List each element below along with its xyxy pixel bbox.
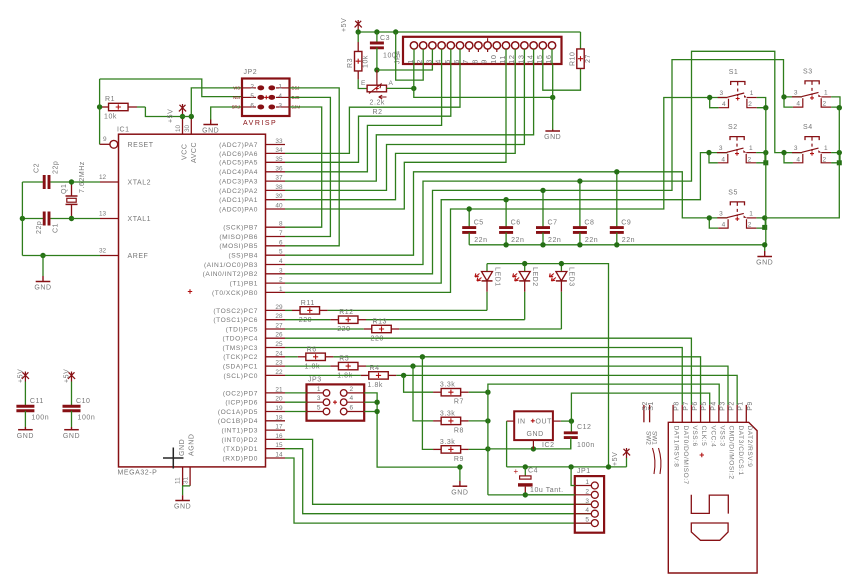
- wire RESET to JP2 pin5: [100, 79, 242, 97]
- svg-text:P9: P9: [747, 401, 754, 411]
- svg-text:220: 220: [371, 336, 384, 343]
- svg-text:+5V: +5V: [612, 452, 619, 466]
- svg-text:(AIN1/OC0)PB3: (AIN1/OC0)PB3: [204, 262, 258, 269]
- svg-text:1.8k: 1.8k: [337, 373, 352, 380]
- svg-text:4: 4: [350, 395, 354, 402]
- svg-text:R6: R6: [307, 346, 317, 353]
- svg-text:S4: S4: [803, 124, 813, 131]
- svg-text:C2: C2: [34, 163, 41, 173]
- svg-text:3: 3: [279, 267, 283, 274]
- svg-text:XTAL2: XTAL2: [128, 180, 152, 187]
- IC1 pin 22 (SCL)PC0: [224, 369, 285, 380]
- switch S4: [781, 124, 840, 163]
- junction R1 left: [97, 104, 102, 109]
- power +5V at VCC: [168, 104, 187, 123]
- capacitor C1: [22, 212, 71, 235]
- wire PB2 bus: [285, 60, 802, 274]
- svg-text:4: 4: [796, 101, 800, 108]
- svg-text:3.3k: 3.3k: [440, 439, 455, 446]
- svg-text:4: 4: [721, 156, 725, 163]
- svg-text:C4: C4: [528, 468, 538, 475]
- junction cap gnd: [503, 242, 508, 247]
- wire S3-S4 right chain: [766, 108, 840, 218]
- svg-text:7: 7: [461, 59, 470, 64]
- svg-text:15: 15: [535, 54, 544, 63]
- wire JP3 pin4: [364, 401, 377, 403]
- svg-text:IC1: IC1: [117, 127, 130, 134]
- svg-text:(ADC2)PA2: (ADC2)PA2: [219, 188, 258, 195]
- svg-text:2: 2: [748, 101, 752, 108]
- svg-text:3.3k: 3.3k: [440, 382, 455, 389]
- wire JP2 pin1 to PB5: [285, 88, 339, 246]
- wire R12 to LED2: [366, 319, 525, 321]
- wire PD1 to JP1 pin4: [285, 449, 592, 514]
- ground GND xtal: [34, 282, 51, 292]
- svg-text:GND: GND: [34, 285, 51, 292]
- svg-text:1: 1: [824, 89, 828, 96]
- junction C3 top: [374, 29, 379, 34]
- wire JP3 pin6: [364, 411, 377, 413]
- svg-text:AVRISP: AVRISP: [243, 120, 277, 127]
- svg-text:18: 18: [275, 414, 283, 421]
- svg-text:23: 23: [275, 360, 283, 367]
- svg-text:R4: R4: [370, 365, 380, 372]
- svg-text:3.3k: 3.3k: [440, 410, 455, 417]
- IC1 pin AVCC (30): [184, 117, 198, 164]
- wire R6 to SD P5 (CLK): [333, 357, 700, 405]
- connector SD/MMC card: [642, 401, 757, 573]
- svg-text:VSS:6: VSS:6: [691, 426, 698, 447]
- junction LED2 top: [522, 261, 527, 266]
- ground GND switches: [756, 251, 773, 267]
- svg-text:R1: R1: [105, 96, 115, 103]
- wire PD5 to JP3: [285, 411, 307, 413]
- resistor R11: [285, 300, 328, 324]
- junction LED3 top: [559, 261, 564, 266]
- resistor R13: [285, 319, 399, 343]
- trimmer R2: [361, 70, 394, 116]
- IC1 PB0 origin mark: [188, 289, 192, 293]
- svg-text:GND: GND: [451, 489, 468, 496]
- wire LCD pin1 net: [414, 64, 553, 97]
- junction JP3 411: [374, 409, 379, 414]
- capacitor C11: [16, 369, 49, 440]
- IC1 MEGA32-P body: [117, 127, 266, 477]
- svg-text:(TMS)PC3: (TMS)PC3: [222, 345, 258, 352]
- wire JP2 pin6 to GND: [211, 107, 242, 120]
- svg-text:SW2: SW2: [645, 431, 652, 445]
- svg-text:RESET: RESET: [128, 142, 154, 149]
- IC1 pin RESET (9): [100, 136, 154, 149]
- svg-text:(INT1)PD3: (INT1)PD3: [222, 428, 258, 435]
- svg-text:1: 1: [278, 83, 282, 90]
- svg-text:S5: S5: [728, 189, 738, 196]
- junction AVCC: [189, 114, 194, 119]
- svg-text:+5V: +5V: [64, 369, 71, 383]
- junction R4 node: [401, 373, 406, 378]
- IC1 pin 14 (RXD)PD0: [222, 452, 285, 463]
- svg-text:30: 30: [184, 124, 191, 132]
- IC1 pin 40 (ADC0)PA0: [219, 203, 285, 214]
- IC1 pin 27 (TDI)PC5: [226, 323, 285, 334]
- wire AREF: [22, 255, 100, 257]
- svg-text:(SDA)PC1: (SDA)PC1: [223, 364, 258, 371]
- svg-text:LED3: LED3: [568, 267, 575, 287]
- connector JP1: [575, 468, 604, 533]
- svg-text:P7: P7: [683, 401, 690, 411]
- IC1 pin 33 (ADC7)PA7: [219, 138, 285, 149]
- wire RESET net R1-left to IC1: [137, 106, 145, 108]
- svg-text:1: 1: [824, 145, 828, 152]
- svg-text:13: 13: [99, 211, 107, 218]
- svg-text:16: 16: [544, 54, 553, 63]
- svg-text:29: 29: [275, 304, 283, 311]
- svg-text:12: 12: [507, 54, 516, 63]
- svg-text:C1: C1: [53, 223, 60, 233]
- svg-text:22n: 22n: [585, 237, 598, 244]
- svg-text:16: 16: [275, 433, 283, 440]
- svg-text:IC2: IC2: [542, 442, 555, 449]
- wire +5V VCC-AVCC: [180, 116, 191, 118]
- svg-text:(SCL)PC0: (SCL)PC0: [224, 373, 258, 380]
- junction switch gnd bus: [762, 242, 767, 247]
- svg-text:12: 12: [99, 174, 107, 181]
- svg-text:GND: GND: [756, 260, 773, 267]
- svg-text:JP3: JP3: [308, 377, 322, 384]
- svg-text:GND: GND: [174, 504, 191, 511]
- svg-text:15: 15: [275, 442, 283, 449]
- junction R5 node: [410, 363, 415, 368]
- svg-text:6: 6: [350, 405, 354, 412]
- resistor R8: [433, 410, 488, 434]
- svg-text:+5V: +5V: [18, 369, 25, 383]
- IC1 pin 18 (OC1B)PD4: [218, 414, 285, 425]
- IC1 pin 35 (ADC5)PA5: [219, 156, 285, 167]
- wire IC2 IN from +5V: [506, 421, 508, 467]
- wire OUT to SD P4 (VCC): [571, 393, 709, 421]
- svg-text:3: 3: [278, 103, 282, 110]
- svg-text:22n: 22n: [474, 237, 487, 244]
- svg-text:3: 3: [585, 498, 589, 505]
- svg-text:7.62MHz: 7.62MHz: [79, 161, 86, 193]
- junction LCD pin1: [411, 86, 416, 91]
- svg-text:(ADC7)PA7: (ADC7)PA7: [219, 142, 258, 149]
- svg-text:4: 4: [796, 156, 800, 163]
- resistor R4: [285, 365, 396, 389]
- svg-text:3: 3: [317, 395, 321, 402]
- svg-text:1.8k: 1.8k: [368, 382, 383, 389]
- svg-text:9: 9: [480, 59, 489, 64]
- junction XTAL2: [69, 179, 74, 184]
- IC1 pin 29 (TOSC2)PC7: [213, 304, 285, 315]
- svg-text:4: 4: [278, 93, 282, 100]
- junction C6 top: [503, 197, 508, 202]
- resistor R9: [433, 439, 488, 463]
- wire JP3 right common: [364, 393, 460, 467]
- svg-text:38: 38: [275, 184, 283, 191]
- wire PA4 to LCD pin4: [285, 64, 442, 172]
- wire RESET vertical: [99, 79, 101, 144]
- svg-text:S3: S3: [803, 68, 813, 75]
- IC1 pin 19 (OC1A)PD5: [218, 405, 285, 416]
- junction +5V top: [356, 29, 361, 34]
- capacitor C10: [63, 369, 96, 440]
- svg-text:AREF: AREF: [128, 253, 149, 260]
- svg-text:22p: 22p: [36, 221, 43, 234]
- crystal Q1: [61, 161, 86, 218]
- capacitor C8: [573, 181, 598, 245]
- svg-text:S1: S1: [648, 401, 655, 411]
- svg-text:(ADC6)PA6: (ADC6)PA6: [219, 151, 258, 158]
- junction JP3 402: [374, 400, 379, 405]
- svg-text:AVCC: AVCC: [191, 142, 198, 163]
- svg-text:2: 2: [748, 156, 752, 163]
- svg-text:1: 1: [585, 479, 589, 486]
- ground GND below JP2: [202, 120, 219, 135]
- IC1 pin 25 (TMS)PC3: [222, 341, 285, 352]
- junction C4 top: [523, 464, 528, 469]
- svg-text:36: 36: [275, 165, 283, 172]
- svg-text:GND: GND: [202, 128, 219, 135]
- svg-text:10u Tant.: 10u Tant.: [530, 487, 564, 494]
- svg-text:CLK:5: CLK:5: [700, 426, 707, 447]
- junction xtal left: [20, 216, 25, 221]
- svg-text:(TDO)PC4: (TDO)PC4: [222, 336, 258, 343]
- svg-text:(ADC3)PA3: (ADC3)PA3: [219, 179, 258, 186]
- svg-text:GND: GND: [63, 433, 80, 440]
- svg-text:P3: P3: [719, 401, 726, 411]
- junction S5 right: [762, 215, 767, 230]
- svg-text:6: 6: [250, 103, 254, 110]
- wire R4 to SD P1 (CS): [396, 375, 737, 405]
- svg-text:4: 4: [722, 101, 726, 108]
- wire capacitor ground bus: [469, 244, 765, 246]
- capacitor C3: [370, 32, 401, 70]
- svg-text:1: 1: [749, 145, 753, 152]
- svg-text:25: 25: [275, 341, 283, 348]
- svg-text:R9: R9: [454, 456, 464, 463]
- svg-text:10k: 10k: [363, 55, 370, 68]
- svg-text:1.8k: 1.8k: [305, 363, 320, 370]
- IC1 pin XTAL1 (13): [99, 211, 151, 224]
- svg-text:R11: R11: [301, 300, 315, 307]
- svg-text:R3: R3: [347, 58, 354, 68]
- switch S2: [706, 124, 765, 163]
- svg-text:26: 26: [275, 332, 283, 339]
- IC1 pin 39 (ADC1)PA1: [219, 193, 285, 204]
- svg-text:22: 22: [275, 369, 283, 376]
- svg-text:DAT0/DO/MISO:7: DAT0/DO/MISO:7: [682, 426, 689, 485]
- wire PD7 to JP3: [285, 392, 307, 394]
- svg-text:VSS:3: VSS:3: [718, 426, 725, 447]
- LED LED3: [549, 264, 574, 329]
- svg-text:CMD/DI/MOSI:2: CMD/DI/MOSI:2: [728, 426, 735, 480]
- IC1 pin 26 (TDO)PC4: [222, 332, 285, 343]
- wire PB4 bus: [285, 172, 728, 255]
- junction C4 bottom: [523, 492, 528, 497]
- svg-text:32: 32: [99, 248, 107, 255]
- svg-text:C3: C3: [380, 35, 390, 42]
- junction C5 top: [467, 206, 472, 211]
- wire PB0 bus: [285, 98, 728, 293]
- svg-text:C6: C6: [511, 220, 521, 227]
- junction S3 right: [837, 105, 842, 110]
- junction LCD pin16 GND: [550, 95, 555, 100]
- IC1 pin 8 (SCK)PB7: [223, 221, 285, 232]
- svg-text:+: +: [514, 467, 519, 476]
- svg-text:14: 14: [275, 452, 283, 459]
- svg-text:+5V: +5V: [168, 109, 175, 123]
- wire AREF-GND drop: [42, 256, 44, 282]
- svg-text:3: 3: [720, 90, 724, 97]
- wire to GND jp3: [459, 467, 461, 486]
- wire PD2 to JP1 pin3: [285, 439, 592, 504]
- svg-text:(TOSC2)PC7: (TOSC2)PC7: [213, 308, 258, 315]
- junction VCC: [180, 114, 185, 119]
- svg-text:100n: 100n: [78, 415, 96, 422]
- wire LED anode bus: [487, 264, 609, 467]
- svg-text:19: 19: [275, 405, 283, 412]
- svg-text:100n: 100n: [31, 415, 49, 422]
- svg-text:8: 8: [279, 221, 283, 228]
- wire LCD pin16: [552, 64, 554, 131]
- resistor R1: [100, 96, 137, 121]
- svg-text:2.2k: 2.2k: [370, 100, 385, 107]
- svg-text:2: 2: [250, 83, 254, 90]
- junction S4 right: [837, 150, 842, 165]
- svg-text:C10: C10: [76, 398, 91, 405]
- junction LCD pin2 drop: [393, 29, 398, 34]
- IC1 pin 16 (INT0)PD2: [222, 433, 285, 444]
- svg-text:XTAL1: XTAL1: [128, 216, 152, 223]
- junction JP3 gnd tap: [457, 464, 462, 469]
- ground GND center: [451, 486, 468, 496]
- svg-text:4: 4: [722, 222, 726, 229]
- svg-text:2: 2: [350, 386, 354, 393]
- svg-text:N5I: N5I: [233, 95, 240, 100]
- svg-text:100n: 100n: [577, 442, 595, 449]
- wire R5 to SD P2 (DI): [366, 366, 728, 405]
- svg-text:2: 2: [748, 222, 752, 229]
- wire PB1 bus: [285, 153, 728, 284]
- wire PD0 to JP1 pin5: [285, 458, 592, 523]
- svg-text:22n: 22n: [622, 237, 635, 244]
- svg-text:11: 11: [498, 55, 507, 64]
- connector JP3: [307, 377, 365, 421]
- svg-text:(ADC1)PA1: (ADC1)PA1: [219, 197, 258, 204]
- IC1 pin 2 (T1)PB1: [230, 277, 285, 288]
- svg-text:11: 11: [175, 477, 182, 484]
- junction C8 top: [577, 178, 582, 183]
- wire GND bus bottom: [488, 494, 575, 496]
- svg-text:(SCK)PB7: (SCK)PB7: [223, 225, 258, 232]
- svg-text:C8: C8: [584, 220, 594, 227]
- resistor R12: [285, 309, 366, 333]
- svg-text:C9: C9: [621, 220, 631, 227]
- svg-text:3: 3: [719, 210, 723, 217]
- svg-text:R13: R13: [373, 319, 388, 326]
- svg-text:R2: R2: [373, 109, 383, 116]
- wire R6 node to R9: [422, 357, 433, 450]
- junction R6 node: [420, 354, 425, 359]
- wire +5V top rail: [358, 31, 580, 33]
- svg-text:1: 1: [749, 210, 753, 217]
- capacitor C9: [610, 172, 635, 245]
- junction C12 top: [569, 418, 574, 423]
- wire R3 bottom to R2: [358, 79, 367, 88]
- capacitor C2: [22, 161, 71, 189]
- IC1 pin 3 (AIN0/INT2)PB2: [203, 267, 285, 278]
- switch S5: [707, 189, 766, 228]
- junction cap gnd: [577, 242, 582, 247]
- IC1 pin VCC (10): [175, 117, 189, 161]
- resistor R5: [285, 356, 366, 380]
- svg-text:2: 2: [415, 59, 424, 64]
- svg-text:27: 27: [585, 54, 592, 63]
- svg-text:35: 35: [275, 156, 283, 163]
- svg-text:(OC2)PD7: (OC2)PD7: [223, 390, 258, 397]
- wire JP2 pin3 to PB7: [285, 107, 322, 227]
- svg-text:21: 21: [275, 386, 283, 393]
- svg-text:R12: R12: [339, 309, 354, 316]
- wire PA3 to LCD pin14: [285, 64, 534, 181]
- svg-text:6: 6: [279, 239, 283, 246]
- junction R7 gnd: [485, 390, 490, 395]
- svg-text:1: 1: [406, 59, 415, 64]
- svg-text:(ADC4)PA4: (ADC4)PA4: [219, 169, 258, 176]
- svg-text:IN: IN: [518, 418, 526, 425]
- svg-text:GND: GND: [17, 433, 34, 440]
- svg-text:8: 8: [470, 59, 479, 64]
- svg-text:R8: R8: [454, 427, 464, 434]
- svg-text:OUT: OUT: [536, 418, 553, 425]
- capacitor C6: [499, 200, 524, 245]
- svg-text:5: 5: [443, 59, 452, 64]
- svg-text:1: 1: [279, 286, 283, 293]
- svg-text:27: 27: [275, 323, 283, 330]
- junction LED bus tap: [606, 464, 611, 469]
- svg-text:220: 220: [299, 317, 312, 324]
- svg-text:(T1)PB1: (T1)PB1: [230, 281, 258, 288]
- svg-text:E: E: [361, 80, 366, 87]
- svg-text:(TXD)PD1: (TXD)PD1: [223, 446, 258, 453]
- junction R8 gnd: [485, 418, 490, 423]
- wire R9 row to C12 bottom: [488, 440, 571, 449]
- wire S1-S2-S5 right gnd chain: [765, 108, 766, 251]
- IC1 pin 4 (AIN1/OC0)PB3: [204, 258, 285, 269]
- svg-text:(SS)PB4: (SS)PB4: [228, 253, 258, 260]
- svg-text:13: 13: [516, 54, 525, 63]
- svg-text:1: 1: [750, 90, 754, 97]
- svg-text:5RJ: 5RJ: [232, 105, 240, 110]
- svg-text:2: 2: [823, 156, 827, 163]
- svg-text:(MOSI)PB5: (MOSI)PB5: [219, 243, 258, 250]
- svg-text:C7: C7: [548, 220, 558, 227]
- wire R13 to LED3: [399, 328, 561, 330]
- regulator IC2: [507, 411, 561, 449]
- LED LED1: [475, 264, 500, 311]
- wire R1 to +5V rail: [145, 107, 180, 117]
- IC1 pins GND(11) AGND(31): [175, 434, 196, 486]
- svg-text:2: 2: [279, 277, 283, 284]
- svg-text:5: 5: [317, 405, 321, 412]
- svg-text:22n: 22n: [511, 237, 524, 244]
- svg-text:DAT2/RSV:9: DAT2/RSV:9: [746, 426, 753, 468]
- junction C3 bottom: [374, 67, 379, 72]
- switch S1: [707, 69, 766, 108]
- wire JP1 pin2 gnd: [525, 494, 575, 496]
- svg-text:C11: C11: [30, 398, 44, 405]
